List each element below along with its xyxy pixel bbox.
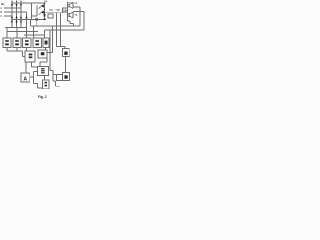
svg-text:A: A — [0, 6, 2, 10]
svg-text:71: 71 — [74, 13, 78, 17]
svg-text:10: 10 — [63, 9, 67, 13]
svg-text:56: 56 — [50, 8, 54, 12]
svg-text:58: 58 — [57, 8, 61, 12]
svg-text:Fig. 2: Fig. 2 — [38, 95, 47, 99]
svg-text:B: B — [0, 10, 2, 14]
svg-text:C: C — [0, 14, 2, 18]
svg-text:A: A — [24, 77, 28, 83]
svg-text:54: 54 — [44, 0, 47, 4]
svg-text:lm: lm — [1, 2, 5, 6]
